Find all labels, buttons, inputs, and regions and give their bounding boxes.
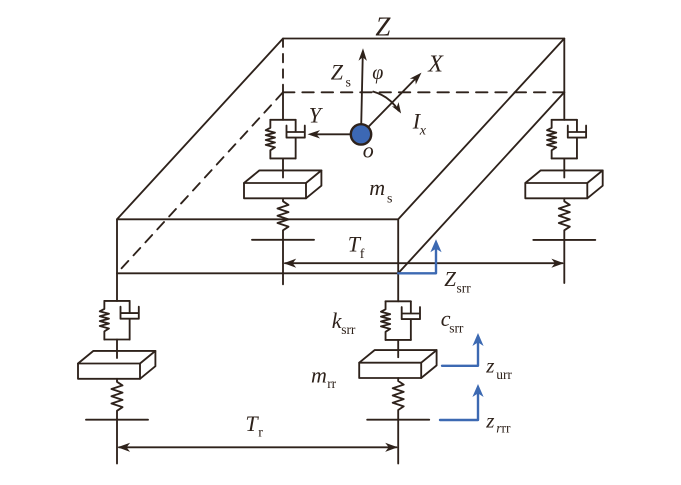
road line under wheel (rear-right): [533, 239, 595, 241]
svg-text:φ: φ: [372, 62, 383, 84]
hidden rear-left vertical edge (dashed): [282, 39, 284, 93]
svg-text:srr: srr: [341, 322, 356, 337]
hidden bottom rear edge (dashed): [283, 91, 564, 93]
suspension bottom bar (rear-right): [552, 157, 577, 159]
rod from body corner to suspension (rear-left): [282, 92, 284, 120]
road line under wheel (rear-left): [252, 239, 314, 241]
svg-text:Y: Y: [309, 102, 324, 127]
suspension bottom bar (front-right): [386, 339, 411, 341]
suspension bottom bar (rear-left): [270, 157, 295, 159]
hidden bottom left edge (dashed): [117, 92, 283, 273]
road input stem (front-left): [116, 420, 118, 464]
svg-text:m: m: [369, 175, 385, 200]
suspension top bar (rear-left): [270, 119, 295, 121]
svg-text:X: X: [427, 51, 444, 77]
road line under wheel (front-left): [86, 419, 148, 421]
unsprung mass block (rear-right): [525, 170, 602, 198]
suspension damper c (rear-right): [568, 120, 586, 159]
svg-text:z: z: [485, 409, 494, 433]
suspension bottom bar (front-left): [104, 339, 129, 341]
svg-text:srr: srr: [449, 320, 464, 335]
tire spring (rear-right): [559, 198, 570, 240]
unsprung mass block (rear-left): [244, 170, 321, 198]
svg-text:Z: Z: [444, 267, 456, 291]
rod from suspension to unsprung mass (rear-left): [282, 158, 284, 177]
unsprung mass block (front-right): [359, 350, 436, 378]
suspension spring k (front-left): [100, 301, 109, 340]
suspension top bar (front-left): [104, 300, 129, 302]
zurr blue arrow: [442, 343, 478, 366]
svg-text:srr: srr: [457, 280, 472, 295]
svg-text:s: s: [387, 191, 392, 206]
suspension spring k (rear-right): [547, 120, 556, 159]
sprung mass body: top face: [117, 39, 564, 220]
tire spring (front-left): [112, 379, 123, 420]
road line under wheel (front-right): [367, 419, 429, 421]
sprung mass body: right face: [398, 39, 564, 274]
road input stem (rear-left): [282, 240, 284, 284]
zrrr blue arrow: [440, 394, 478, 420]
svg-text:Z: Z: [375, 12, 391, 42]
rod from body corner to suspension (front-right): [397, 273, 399, 301]
svg-text:x: x: [419, 123, 427, 138]
svg-text:rr: rr: [327, 376, 336, 391]
phi rotation arc: [373, 92, 398, 111]
suspension damper c (front-left): [121, 301, 139, 340]
suspension spring k (rear-left): [266, 120, 275, 159]
svg-text:f: f: [360, 247, 365, 262]
svg-text:o: o: [363, 137, 374, 162]
svg-text:r: r: [258, 426, 263, 441]
Y axis arrow: [313, 133, 361, 135]
svg-text:Z: Z: [331, 60, 344, 85]
svg-text:T: T: [245, 411, 259, 436]
centre of mass ball o: [351, 124, 371, 144]
suspension top bar (rear-right): [552, 119, 577, 121]
suspension damper c (rear-left): [287, 120, 305, 159]
tire spring (rear-left): [278, 198, 289, 240]
Tr dimension line: [119, 446, 397, 448]
suspension damper c (front-right): [402, 301, 420, 340]
suspension spring k (front-right): [381, 301, 390, 340]
sprung mass body: front face: [117, 219, 398, 273]
suspension top bar (front-right): [386, 300, 411, 302]
tire spring (front-right): [393, 378, 404, 420]
rod from suspension to unsprung mass (front-right): [397, 340, 399, 357]
unsprung mass block (front-left): [78, 351, 155, 379]
svg-text:z: z: [485, 353, 494, 377]
rod from body corner to suspension (rear-right): [563, 92, 565, 120]
Tf dimension line: [285, 262, 563, 264]
rod from suspension to unsprung mass (front-left): [116, 340, 118, 359]
svg-text:rr: rr: [502, 420, 511, 435]
svg-text:urr: urr: [496, 367, 512, 382]
rod from suspension to unsprung mass (rear-right): [563, 158, 565, 177]
svg-text:s: s: [346, 76, 351, 91]
Zs axis arrow: [361, 58, 363, 134]
rod from body corner to suspension (front-left): [116, 273, 118, 301]
svg-text:m: m: [311, 363, 327, 388]
X axis arrow: [361, 78, 417, 135]
road input stem (rear-right): [563, 240, 565, 283]
road input stem (front-right): [397, 420, 399, 464]
Zsrr blue arrow: [398, 249, 436, 273]
